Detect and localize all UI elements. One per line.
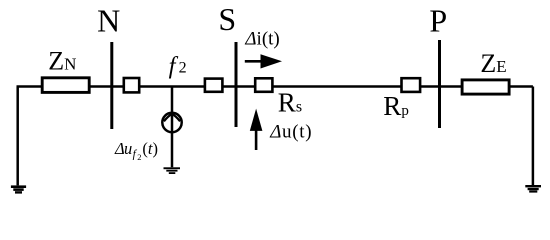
label delta u f2 (t): [114, 139, 158, 162]
bus P: [438, 40, 441, 128]
bus N: [110, 42, 113, 129]
svg-text:2: 2: [137, 152, 141, 162]
impedance box B2: [205, 79, 223, 92]
svg-text:u: u: [124, 139, 132, 158]
arrow delta u: [250, 109, 263, 150]
svg-text:(t): (t): [142, 139, 158, 158]
svg-text:2: 2: [179, 60, 187, 77]
impedance box B3 (Rs): [255, 78, 272, 92]
svg-text:P: P: [429, 2, 447, 38]
wire fault branch vertical: [171, 87, 174, 168]
svg-text:Δu(t): Δu(t): [269, 122, 312, 143]
ground f2: [164, 167, 181, 174]
svg-text:S: S: [218, 1, 236, 37]
resistor ZN: [42, 78, 89, 93]
svg-text:Δi(t): Δi(t): [244, 29, 279, 50]
impedance box Rp: [402, 78, 421, 92]
resistor ZE: [462, 80, 509, 94]
source arrowhead: [164, 114, 180, 122]
source U f2 (current source circle): [162, 113, 181, 132]
wire right vertical: [532, 87, 535, 186]
wire main horizontal: [17, 85, 533, 88]
wire left vertical: [16, 87, 19, 186]
bus S: [235, 42, 238, 127]
impedance box B1: [124, 78, 139, 92]
ground left: [11, 185, 26, 193]
svg-text:N: N: [97, 2, 120, 38]
ground right: [525, 185, 541, 193]
arrow delta i: [245, 54, 282, 68]
